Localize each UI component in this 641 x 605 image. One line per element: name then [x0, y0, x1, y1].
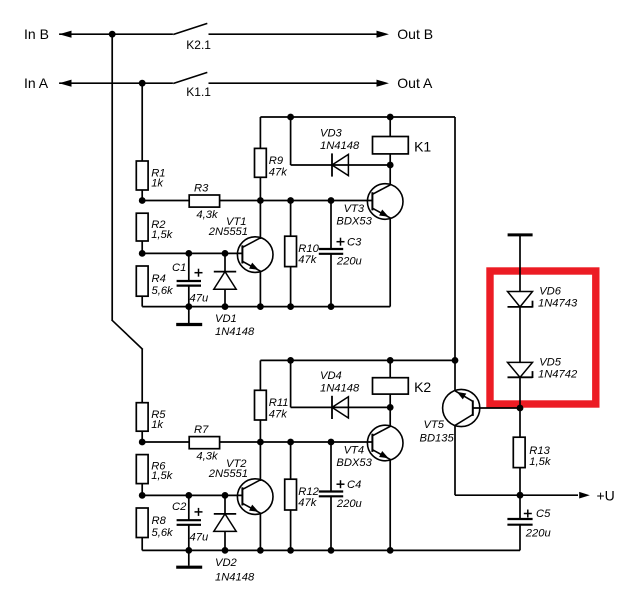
svg-text:C2: C2 — [172, 501, 187, 513]
node right rail junction at channel-2 top — [452, 357, 459, 364]
arrow In B — [59, 31, 71, 38]
wire VT3 emitter — [389, 218, 391, 307]
capacitor C1 47u — [177, 280, 201, 282]
svg-text:Out B: Out B — [397, 26, 433, 42]
wire VT4 emitter — [389, 459, 391, 550]
svg-text:1k: 1k — [151, 177, 164, 189]
svg-text:VD6: VD6 — [539, 285, 562, 297]
switch contact K1.1 — [173, 72, 207, 83]
svg-text:1N4148: 1N4148 — [215, 571, 255, 583]
wire R12 bottom stub — [290, 510, 292, 550]
node bottom junction C2 — [185, 547, 192, 554]
relay coil K2 — [373, 378, 409, 394]
node left-rail base-row junction — [139, 439, 146, 446]
svg-text:VT4: VT4 — [344, 445, 365, 457]
arrow In A — [59, 80, 71, 87]
svg-text:220u: 220u — [525, 528, 551, 540]
svg-text:1N4742: 1N4742 — [538, 369, 578, 381]
wire In B rail down — [111, 34, 113, 320]
wire R11 bottom stub — [259, 420, 261, 442]
node top-rail junction coil K1 — [387, 114, 394, 121]
wire R2 bottom stub — [141, 241, 143, 253]
wire In B line — [59, 33, 173, 35]
wire top rail of relay K2 — [260, 359, 455, 361]
svg-text:1N4148: 1N4148 — [215, 326, 255, 338]
wire +U output line — [455, 494, 578, 496]
red highlight box around VD5/VD6 — [490, 271, 596, 404]
wire R12 top stub — [290, 442, 292, 479]
svg-text:1k: 1k — [151, 419, 164, 431]
svg-text:In A: In A — [24, 75, 49, 91]
node VD4 cathode junction — [387, 404, 394, 411]
node base-row junction at R12 column — [287, 439, 294, 446]
node base-row junction at C3 column — [328, 197, 335, 204]
wire R4 bottom stub — [141, 296, 143, 306]
wire coil K2 top stub — [389, 360, 391, 377]
node base-row junction at collector column — [257, 197, 264, 204]
wire R5 bottom stub — [141, 431, 143, 442]
wire K1.1 to Out A — [209, 82, 378, 84]
wire emitter row to VT2 base — [142, 494, 242, 496]
wire VD2 bottom stub — [224, 531, 226, 550]
resistor R8 5,6k — [136, 508, 148, 538]
svg-text:5,6k: 5,6k — [152, 285, 175, 297]
svg-text:47k: 47k — [269, 167, 288, 179]
node bottom junction VD1 — [222, 303, 229, 310]
wire coil K1 bottom stub — [389, 154, 391, 165]
svg-text:+U: +U — [597, 487, 615, 503]
wire VT3 collector — [389, 165, 391, 186]
svg-text:VT3: VT3 — [344, 203, 365, 215]
wire channel-2 rail upper — [141, 349, 143, 403]
wire C2 top stub — [188, 495, 190, 520]
resistor R4 5,6k — [136, 266, 148, 296]
wire VT2 emitter — [259, 514, 261, 550]
arrow +U — [579, 492, 590, 499]
svg-text:1,5k: 1,5k — [151, 229, 174, 241]
svg-text:BDX53: BDX53 — [336, 216, 372, 228]
svg-text:K2.1: K2.1 — [186, 38, 211, 52]
arrow Out A — [377, 80, 389, 87]
node base-row junction at collector column — [257, 439, 264, 446]
wire diode row VD4 — [291, 406, 391, 408]
resistor R9 47k — [255, 148, 267, 177]
wire R10 top stub — [290, 201, 292, 237]
resistor R3 4,3k — [189, 195, 219, 207]
capacitor C5 220u — [507, 518, 532, 520]
svg-text:C4: C4 — [347, 479, 361, 491]
wire C4 bottom stub — [330, 496, 332, 550]
wire R8 bottom stub — [141, 538, 143, 551]
node VD3 cathode junction — [387, 162, 394, 169]
wire coil K2 bottom stub — [389, 394, 391, 407]
wire R9 top stub — [259, 117, 261, 148]
svg-text:5,6k: 5,6k — [152, 527, 175, 539]
node emitter-row junction C1 — [185, 250, 192, 257]
resistor R12 47k — [285, 479, 297, 510]
svg-text:K1.1: K1.1 — [186, 85, 211, 99]
wire C5 top stub — [519, 495, 521, 519]
node bottom junction VT4 emitter — [387, 547, 394, 554]
node emitter-row junction C2 — [185, 492, 192, 499]
wire bottom rail — [142, 306, 390, 308]
svg-text:VD2: VD2 — [215, 557, 238, 569]
wire In A line — [59, 82, 173, 84]
resistor R1 1k — [136, 161, 148, 190]
wire coil K1 top stub — [389, 117, 391, 137]
svg-text:In B: In B — [24, 26, 49, 42]
svg-text:1N4148: 1N4148 — [320, 140, 360, 152]
svg-text:1N4743: 1N4743 — [538, 298, 578, 310]
wire R6 bottom stub — [141, 484, 143, 496]
resistor R11 47k — [255, 390, 267, 420]
svg-text:R8: R8 — [152, 515, 167, 527]
wire VT1 collector — [259, 201, 261, 240]
node left-rail emitter-row junction — [139, 492, 146, 499]
zener diode VD5 1N4742 — [508, 362, 533, 377]
node top-rail junction coil K2 — [387, 357, 394, 364]
wire base row — [142, 441, 372, 443]
wire VD1 top stub — [224, 253, 226, 271]
svg-text:K1: K1 — [414, 139, 431, 155]
wire VT5 emitter lead — [454, 360, 456, 391]
wire VT5 collector lead — [454, 425, 456, 495]
node bottom junction C3 — [328, 303, 335, 310]
ground symbol — [188, 307, 190, 323]
transistor VT5 BD135 — [443, 389, 480, 426]
svg-text:2N5551: 2N5551 — [208, 468, 248, 480]
svg-text:C1: C1 — [172, 262, 186, 274]
node bottom junction R12 — [287, 547, 294, 554]
svg-text:R9: R9 — [269, 155, 283, 167]
capacitor C3 220u — [319, 248, 343, 250]
capacitor C4 220u — [319, 490, 343, 492]
wire R10 bottom stub — [290, 267, 292, 307]
wire In B rail diagonal jog — [112, 320, 143, 350]
wire C1 bottom stub — [188, 286, 190, 307]
svg-text:VT5: VT5 — [424, 419, 445, 431]
svg-text:47k: 47k — [298, 254, 317, 266]
wire power bar to VD6 — [519, 235, 521, 292]
svg-text:BDX53: BDX53 — [336, 457, 372, 469]
wire K2.1 to Out B — [209, 33, 378, 35]
svg-text:Out A: Out A — [397, 75, 433, 91]
diode VD3 1N4148 — [331, 153, 333, 176]
svg-text:R4: R4 — [152, 273, 166, 285]
node bottom junction R10 — [287, 303, 294, 310]
wire VD1 bottom stub — [224, 289, 226, 306]
node left-rail emitter-row junction — [139, 250, 146, 257]
wire R9 bottom stub — [259, 177, 261, 200]
wire VT4 collector — [389, 407, 391, 427]
svg-text:K2: K2 — [414, 379, 431, 395]
wire base row — [142, 200, 372, 202]
resistor R13 1,5k — [513, 437, 525, 467]
wire VD2 top stub — [224, 495, 226, 514]
wire right rail from K1 rail down — [454, 117, 456, 360]
node In A junction — [139, 80, 146, 87]
power bar symbol — [508, 233, 533, 236]
svg-text:1,5k: 1,5k — [529, 456, 552, 468]
svg-text:47u: 47u — [190, 532, 209, 544]
diode VD1 1N4148 — [214, 271, 236, 273]
svg-text:C5: C5 — [536, 508, 551, 520]
svg-text:47u: 47u — [190, 292, 209, 304]
wire C4 top stub — [330, 442, 332, 492]
wire bottom rail — [142, 549, 520, 551]
transistor VT4 BDX53 — [367, 425, 403, 461]
node In B junction — [109, 31, 116, 38]
svg-text:1,5k: 1,5k — [151, 470, 174, 482]
svg-text:R7: R7 — [194, 424, 209, 436]
svg-text:BD135: BD135 — [420, 433, 455, 445]
capacitor C2 47u — [177, 519, 201, 521]
node top-rail junction VD4 drop — [287, 357, 294, 364]
svg-text:1N4148: 1N4148 — [320, 382, 360, 394]
svg-text:220u: 220u — [336, 498, 362, 510]
wire R13 top stub — [519, 408, 521, 437]
relay coil K1 — [373, 137, 409, 154]
transistor VT2 2N5551 — [237, 479, 273, 515]
wire VD3 anode drop — [290, 117, 292, 165]
ground symbol — [188, 550, 190, 565]
svg-text:2N5551: 2N5551 — [208, 226, 248, 238]
node +U junction — [517, 492, 524, 499]
node bottom junction VT2 emitter — [257, 547, 264, 554]
wire R13 bottom stub — [519, 468, 521, 496]
node bottom junction VD2 — [222, 547, 229, 554]
node top-rail junction VD3 drop — [287, 114, 294, 121]
svg-text:R11: R11 — [269, 397, 289, 409]
wire VD6 to VD5 — [519, 307, 521, 363]
svg-text:VD4: VD4 — [320, 370, 342, 382]
resistor R6 1,5k — [136, 455, 148, 484]
wire C2 bottom stub — [188, 525, 190, 551]
wire C3 bottom stub — [330, 254, 332, 307]
diode VD4 1N4148 — [331, 396, 333, 419]
node bottom junction C1 — [185, 303, 192, 310]
wire C5 bottom stub — [519, 525, 521, 551]
svg-text:220u: 220u — [336, 256, 362, 268]
node left-rail base-row junction — [139, 197, 146, 204]
zener diode VD6 1N4743 — [508, 292, 533, 307]
transistor VT3 BDX53 — [367, 184, 403, 220]
node emitter-row junction VD1 — [222, 250, 229, 257]
wire C3 top stub — [330, 201, 332, 250]
wire VT2 collector — [259, 442, 261, 481]
node base-row junction at C4 column — [328, 439, 335, 446]
wire diode row VD3 — [291, 164, 391, 166]
resistor R5 1k — [136, 403, 148, 432]
svg-text:4,3k: 4,3k — [196, 209, 219, 221]
svg-text:R3: R3 — [194, 183, 209, 195]
wire VT5 base lead — [473, 407, 520, 409]
diode VD2 1N4148 — [214, 513, 236, 515]
transistor VT1 2N5551 — [237, 237, 273, 273]
node bottom junction C4 — [328, 547, 335, 554]
svg-text:47k: 47k — [269, 409, 288, 421]
node base-row junction at R10 column — [287, 197, 294, 204]
wire R11 top stub — [259, 360, 261, 390]
wire top rail of relay K1 — [260, 116, 455, 118]
wire VT1 emitter — [259, 272, 261, 307]
wire In A rail down to R1 — [141, 83, 143, 161]
wire R1 bottom stub — [141, 190, 143, 201]
switch contact K2.1 — [173, 23, 207, 34]
resistor R10 47k — [285, 236, 297, 266]
svg-text:47k: 47k — [298, 497, 317, 509]
wire emitter row to VT1 base — [142, 252, 242, 254]
arrow Out B — [377, 31, 389, 38]
svg-text:C3: C3 — [347, 237, 362, 249]
wire VD5 to base node — [519, 377, 521, 408]
wire C1 top stub — [188, 253, 190, 281]
node bottom junction VT1 emitter — [257, 303, 264, 310]
node VT5 base / zener junction — [517, 405, 524, 412]
svg-text:VD5: VD5 — [539, 356, 562, 368]
svg-text:VD3: VD3 — [320, 128, 343, 140]
wire VD4 anode drop — [290, 360, 292, 407]
svg-text:4,3k: 4,3k — [196, 450, 219, 462]
resistor R7 4,3k — [189, 437, 219, 449]
svg-text:VD1: VD1 — [215, 313, 237, 325]
svg-text:R13: R13 — [529, 445, 550, 457]
resistor R2 1,5k — [136, 213, 148, 241]
node emitter-row junction VD2 — [222, 492, 229, 499]
